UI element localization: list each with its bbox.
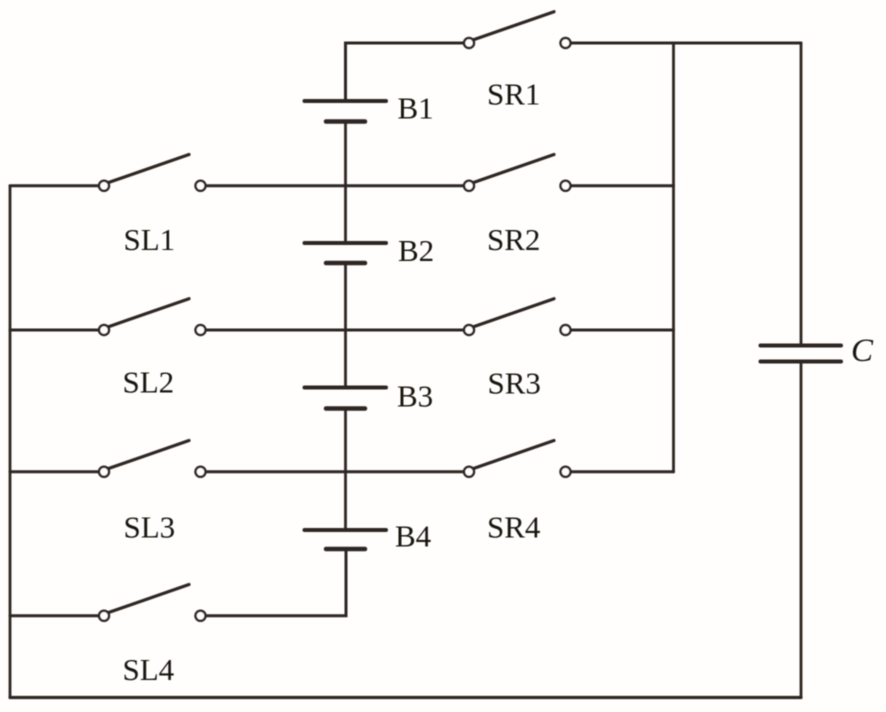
wire row2 left bus to SL2 [10,329,98,332]
wire right vertical above capacitor [800,43,803,345]
svg-text:C: C [851,333,874,369]
switch SR2 [464,155,571,191]
svg-text:SL4: SL4 [123,652,175,687]
svg-text:SL1: SL1 [124,222,176,257]
svg-text:SL3: SL3 [124,510,176,545]
switch SL1 [99,155,206,191]
wire left bus vertical [9,186,12,698]
battery B2 [305,243,387,263]
wire row4 SL4 right to battery chain bottom [206,549,346,616]
switch SR3 [464,299,571,335]
battery B1 [305,101,387,122]
wire row3 left bus to SL3 [10,470,98,473]
svg-text:B3: B3 [397,378,433,413]
svg-text:SL2: SL2 [123,365,175,400]
wire row2 SL2 right to SR3 left (through battery node) [206,329,463,332]
svg-text:SR3: SR3 [488,366,541,401]
wire bottom rail [10,696,801,699]
wire right vertical below capacitor [800,362,803,698]
wire row3 SR4 right to junction column [571,470,674,473]
svg-text:SR1: SR1 [487,76,540,111]
svg-text:B4: B4 [395,518,432,553]
wire row1 SL1 right to SR2 left (through battery node) [206,184,463,187]
wire row3 SL3 right to SR4 left (through battery node) [206,470,463,473]
switch SR1 [464,12,571,48]
switch SL4 [99,585,206,621]
switch SR4 [464,441,571,477]
wire battery chain B1 bottom to row1 to B2 top [344,122,347,244]
switch SL3 [99,441,206,477]
wire top rail left segment (battery top to SR1 left) [346,43,464,101]
svg-text:B1: B1 [398,90,434,125]
wire row1 SR2 right to junction column [571,184,674,187]
battery B3 [305,388,387,409]
wire SR junction column vertical [672,43,675,472]
switch SL2 [99,299,206,335]
wire row4 left bus to SL4 [10,614,98,617]
wire battery chain B2 bottom to row2 to B3 top [344,263,347,388]
svg-text:B2: B2 [398,233,434,268]
capacitor C [761,346,842,362]
wire battery chain B3 bottom to row3 to B4 top [344,409,347,531]
wire row1 left bus to SL1 [10,184,98,187]
wire row2 SR3 right to junction column [571,329,674,332]
svg-text:SR4: SR4 [487,509,541,544]
wire top rail right segment (SR1 right to top-right corner) [571,42,801,45]
battery B4 [305,530,387,549]
svg-text:SR2: SR2 [487,222,540,257]
